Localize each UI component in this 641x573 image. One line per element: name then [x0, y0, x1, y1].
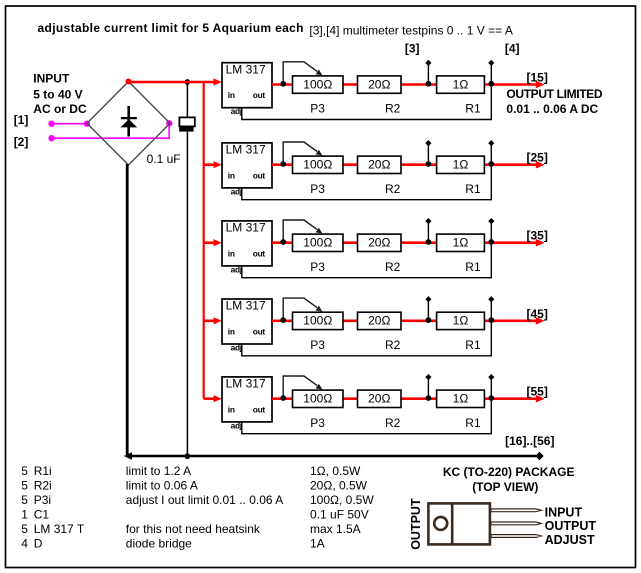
svg-text:1Ω: 1Ω [453, 236, 469, 250]
ground bus right diamond end [535, 452, 543, 460]
testpin stub node row2 a [427, 143, 429, 165]
potentiometer wiper arrow P3 row1 [283, 62, 317, 84]
terminal dots magenta [48, 121, 54, 127]
svg-text:R2: R2 [385, 102, 401, 116]
resistor R1 row2 1ohm [437, 156, 485, 173]
svg-text:1: 1 [21, 508, 28, 522]
svg-text:LM 317: LM 317 [226, 62, 266, 76]
svg-text:1Ω, 0.5W: 1Ω, 0.5W [310, 464, 361, 478]
svg-text:LM 317: LM 317 [226, 143, 266, 157]
wire red out segments row2 [272, 163, 491, 166]
svg-text:5 to 40 V: 5 to 40 V [33, 87, 82, 101]
potentiometer P3 row3 100ohm [293, 234, 344, 251]
svg-text:adj: adj [231, 420, 242, 430]
svg-text:20Ω: 20Ω [368, 314, 390, 328]
wire adj feedback loop row4 [242, 299, 491, 356]
svg-text:0.1 uF 50V: 0.1 uF 50V [310, 508, 369, 522]
svg-text:D: D [34, 537, 43, 551]
svg-text:INPUT: INPUT [33, 71, 70, 85]
potentiometer P3 row1 100ohm [293, 76, 344, 93]
svg-text:R2: R2 [385, 338, 401, 352]
ground bus left arrowhead [124, 452, 132, 459]
svg-text:1A: 1A [310, 537, 325, 551]
svg-text:INPUT: INPUT [545, 505, 583, 519]
op-amp regulator U1 LM 317 [222, 63, 272, 108]
wire magenta input 1 [52, 123, 87, 125]
svg-text:100Ω, 0.5W: 100Ω, 0.5W [310, 493, 374, 507]
svg-text:out: out [253, 404, 266, 414]
svg-text:R1: R1 [465, 260, 481, 274]
svg-text:5: 5 [21, 493, 28, 507]
capacitor C1 [186, 82, 188, 117]
svg-text:100Ω: 100Ω [303, 77, 332, 91]
svg-text:LM 317 T: LM 317 T [34, 522, 85, 536]
testpin stub node row4 a [427, 299, 429, 321]
svg-text:P3: P3 [310, 338, 325, 352]
svg-text:KC (TO-220) PACKAGE: KC (TO-220) PACKAGE [443, 465, 575, 479]
wire red output arrow row2 [491, 163, 537, 166]
svg-text:1Ω: 1Ω [453, 158, 469, 172]
svg-text:[3]: [3] [405, 41, 420, 55]
svg-text:100Ω: 100Ω [303, 392, 332, 406]
svg-text:R1: R1 [465, 102, 481, 116]
package mounting hole [434, 517, 447, 530]
wire red output arrow row3 [491, 241, 537, 244]
svg-text:out: out [253, 326, 266, 336]
potentiometer P3 row2 100ohm [293, 156, 344, 173]
package tab+body outline [428, 503, 490, 544]
potentiometer wiper arrow P3 row5 [283, 376, 317, 398]
testpin stub node row1 b [488, 60, 494, 66]
svg-text:ADJUST: ADJUST [545, 533, 595, 547]
wire adj feedback loop row5 [242, 377, 491, 434]
wire red output arrow row5 [491, 397, 537, 400]
junction dot cap top [185, 79, 191, 85]
svg-text:1Ω: 1Ω [453, 77, 469, 91]
svg-text:[55]: [55] [527, 385, 548, 399]
junction dots row1 [280, 81, 286, 87]
svg-text:OUTPUT: OUTPUT [409, 498, 423, 550]
svg-text:max 1.5A: max 1.5A [310, 522, 361, 536]
package leads [491, 509, 541, 538]
svg-text:LM 317: LM 317 [226, 299, 266, 313]
op-amp regulator U5 LM 317 [222, 377, 272, 422]
svg-text:1Ω: 1Ω [453, 314, 469, 328]
resistor R1 row1 1ohm [437, 76, 485, 93]
svg-text:for this not need heatsink: for this not need heatsink [126, 522, 261, 536]
resistor R2 row3 20ohm [358, 234, 402, 251]
svg-text:LM 317: LM 317 [226, 377, 266, 391]
resistor R1 row5 1ohm [437, 390, 485, 407]
svg-text:[16]..[56]: [16]..[56] [505, 434, 554, 448]
svg-text:in: in [228, 90, 235, 100]
svg-text:20Ω: 20Ω [368, 158, 390, 172]
svg-text:R1: R1 [465, 338, 481, 352]
TO-220 package drawing [428, 503, 490, 545]
svg-text:[3],[4] multimeter testpins 0: [3],[4] multimeter testpins 0 .. 1 V == … [309, 24, 512, 38]
potentiometer wiper arrow P3 row2 [283, 142, 317, 164]
wire red out segments row3 [272, 241, 491, 244]
op-amp regulator U4 LM 317 [222, 299, 272, 344]
svg-text:P3i: P3i [34, 493, 51, 507]
wire adj feedback loop row3 [242, 221, 491, 278]
svg-text:P3: P3 [310, 416, 325, 430]
junction dots row2 [280, 161, 286, 167]
svg-text:adj: adj [231, 264, 242, 274]
svg-text:1Ω: 1Ω [453, 392, 469, 406]
svg-text:R2: R2 [385, 260, 401, 274]
wire ground from bridge bottom [126, 164, 129, 456]
testpin stub node row3 b [488, 218, 494, 224]
potentiometer wiper arrow P3 row3 [283, 220, 317, 242]
wire red out segments row5 [272, 397, 491, 400]
svg-text:out: out [253, 90, 266, 100]
svg-text:[25]: [25] [527, 151, 548, 165]
diode bridge diamond [87, 82, 170, 166]
testpin stub node row1 a [427, 63, 429, 85]
svg-text:adj: adj [231, 186, 242, 196]
resistor R1 row3 1ohm [437, 234, 485, 251]
potentiometer P3 row4 100ohm [293, 312, 344, 329]
package divider [451, 503, 454, 545]
svg-text:R2i: R2i [34, 479, 52, 493]
wire red out segments row4 [272, 319, 491, 322]
svg-text:C1: C1 [34, 508, 50, 522]
wire red output arrow row4 [491, 319, 537, 322]
wire red feed row4 from bus [204, 319, 215, 322]
svg-text:P3: P3 [310, 260, 325, 274]
svg-text:R2: R2 [385, 182, 401, 196]
svg-text:(TOP VIEW): (TOP VIEW) [472, 480, 538, 494]
junction dot cap bottom [185, 453, 191, 459]
svg-text:[45]: [45] [527, 307, 548, 321]
svg-text:[2]: [2] [14, 135, 29, 149]
svg-text:limit to 0.06 A: limit to 0.06 A [126, 479, 198, 493]
red bus vertical [203, 82, 205, 399]
op-amp regulator U2 LM 317 [222, 143, 272, 188]
svg-text:20Ω: 20Ω [368, 77, 390, 91]
potentiometer wiper arrow P3 row4 [283, 298, 317, 320]
svg-text:adjust I out limit 0.01 .. 0.0: adjust I out limit 0.01 .. 0.06 A [126, 493, 283, 507]
diode D inside bridge [127, 106, 130, 137]
potentiometer P3 row5 100ohm [293, 390, 344, 407]
resistor R2 row1 20ohm [358, 76, 402, 93]
svg-text:0.1 uF: 0.1 uF [147, 152, 181, 166]
svg-text:5: 5 [21, 464, 28, 478]
svg-text:OUTPUT: OUTPUT [545, 519, 597, 533]
svg-text:P3: P3 [310, 182, 325, 196]
svg-text:R1: R1 [465, 182, 481, 196]
svg-text:adj: adj [231, 106, 242, 116]
testpin stub node row5 b [488, 374, 494, 380]
svg-text:adj: adj [231, 342, 242, 352]
svg-text:diode bridge: diode bridge [126, 537, 192, 551]
wire red feed row1 from bridge [129, 81, 216, 84]
svg-text:out: out [253, 248, 266, 258]
wire red output arrow row1 [491, 83, 537, 86]
svg-text:[1]: [1] [14, 113, 29, 127]
svg-text:20Ω, 0.5W: 20Ω, 0.5W [310, 479, 368, 493]
svg-text:out: out [253, 170, 266, 180]
svg-text:20Ω: 20Ω [368, 392, 390, 406]
wire red out segments row1 [272, 83, 491, 86]
svg-text:AC or DC: AC or DC [33, 102, 87, 116]
parts list [21, 464, 374, 551]
junction dots row4 [280, 317, 286, 323]
wire adj feedback loop row1 [242, 63, 491, 120]
wire magenta input 2 [52, 124, 170, 139]
testpin stub node row2 b [488, 140, 494, 146]
svg-text:limit to 1.2 A: limit to 1.2 A [126, 464, 191, 478]
wire red feed row3 from bus [204, 241, 215, 244]
svg-text:in: in [228, 170, 235, 180]
testpin stub node row3 a [427, 221, 429, 243]
junction dots row5 [280, 395, 286, 401]
resistor R2 row5 20ohm [358, 390, 402, 407]
svg-text:4: 4 [21, 537, 28, 551]
svg-text:OUTPUT LIMITED: OUTPUT LIMITED [506, 87, 602, 101]
svg-text:LM 317: LM 317 [226, 221, 266, 235]
svg-text:[35]: [35] [527, 229, 548, 243]
svg-text:5: 5 [21, 479, 28, 493]
svg-text:R1i: R1i [34, 464, 52, 478]
svg-text:P3: P3 [310, 102, 325, 116]
red dot bridge top node [126, 79, 132, 85]
wire adj feedback loop row2 [242, 143, 491, 200]
wire red feed row2 from bus [204, 163, 215, 166]
resistor R2 row2 20ohm [358, 156, 402, 173]
resistor R1 row4 1ohm [437, 312, 485, 329]
svg-text:100Ω: 100Ω [303, 158, 332, 172]
op-amp regulator U3 LM 317 [222, 221, 272, 266]
svg-text:in: in [228, 326, 235, 336]
junction dots row3 [280, 239, 286, 245]
ground bus wire [126, 455, 538, 457]
svg-text:0.01 .. 0.06 A DC: 0.01 .. 0.06 A DC [506, 102, 598, 116]
svg-text:5: 5 [21, 522, 28, 536]
resistor R2 row4 20ohm [358, 312, 402, 329]
svg-text:in: in [228, 248, 235, 258]
svg-text:adjustable current limit for 5: adjustable current limit for 5 Aquarium … [38, 21, 304, 35]
testpin stub node row5 a [427, 377, 429, 399]
wire red feed row5 from bus [204, 397, 215, 400]
svg-text:20Ω: 20Ω [368, 236, 390, 250]
svg-text:R2: R2 [385, 416, 401, 430]
svg-text:100Ω: 100Ω [303, 314, 332, 328]
svg-text:in: in [228, 404, 235, 414]
svg-text:[4]: [4] [505, 41, 520, 55]
svg-text:100Ω: 100Ω [303, 236, 332, 250]
svg-text:R1: R1 [465, 416, 481, 430]
testpin stub node row4 b [488, 296, 494, 302]
svg-text:[15]: [15] [527, 71, 548, 85]
